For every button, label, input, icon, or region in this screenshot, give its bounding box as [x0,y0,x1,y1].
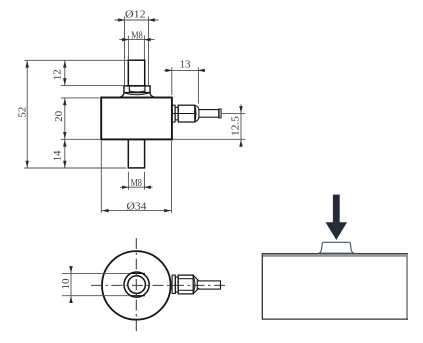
svg-text:Ø12: Ø12 [125,9,146,21]
hex nut facet lines [128,86,130,93]
hex nut / flange of upper stud [124,86,150,93]
base block left dark edge [261,253,263,319]
stud hole circle (top view) [128,276,146,294]
hex nut chamfer arc [129,91,145,92]
connector hex facet lines (top view) [178,278,193,280]
connector washer 2 (front view) [175,107,178,120]
connector washer 1 (top view) [172,275,175,293]
horizontal center line (top view) [91,284,228,286]
dim 12.5 bottom extension line (body bottom extended right) [172,138,245,140]
extension line body bottom [61,138,100,140]
connector cable tube (front view) [199,110,219,118]
dim 52 dimension line [26,60,28,168]
svg-text:52: 52 [18,107,29,118]
dim 13 dimension line with outside arrows [164,69,205,71]
washer top arc [125,93,149,95]
dim M8 bottom dimension line with outside arrows [120,186,153,188]
extension line lower stud bottom [24,167,126,169]
dim 13 extension line right [197,67,199,103]
connector hex right chamfers and facet arc (top view) [193,275,199,281]
svg-text:13: 13 [180,60,191,71]
connector washer 2 (top view) [175,277,178,292]
connector washer 1 (front view) [172,105,175,122]
upper threaded stud M8 [128,60,144,86]
svg-text:10: 10 [61,279,72,290]
svg-text:12.5: 12.5 [231,116,242,136]
svg-text:20: 20 [54,111,65,122]
dim M8 bottom extension lines [127,172,129,190]
lower threaded stud M8 [128,139,144,168]
load button boss on top of block [319,242,354,253]
svg-text:M8: M8 [130,178,142,189]
dim Ø34 dimension line with inside arrows [101,210,171,212]
dim 13 extension line left (body edge up) [171,67,173,95]
connector hex plug body (top view) [178,275,193,294]
dim 10 extension lines [62,272,130,274]
dim M8 extension lines (top stud) [127,36,129,60]
dim 10 dimension line with outside arrows [70,266,72,303]
connector tube end cap (front view) [219,109,221,118]
dim M8 top dimension line with outside arrows [119,39,154,41]
connector cable tube (top view) [197,281,220,289]
extension line body top [61,97,100,99]
extension line stud top [24,59,127,61]
vertical center line (top view) [135,238,137,334]
connector hex mid seam (front view) [172,113,195,115]
mounting base block [262,253,408,319]
base block top dark line [262,253,408,255]
dim 12 dimension line [64,60,66,85]
base block right gray edge [406,253,408,319]
force arrow head [326,222,348,240]
hex flange circle (top view) [124,272,149,297]
svg-text:M8: M8 [131,30,143,41]
dim Ø34 extension lines [100,141,102,213]
spherical washer flare below nut [119,93,124,98]
body outer circle (top view) [102,251,171,320]
extension line hex top [61,85,124,87]
dim 14 dimension line [64,139,66,168]
dim 20 dimension line [64,98,66,139]
svg-text:12: 12 [53,69,64,80]
connector hex plug body (front view) [178,105,195,122]
svg-text:Ø34: Ø34 [127,201,148,213]
connector axis line (front view) [221,112,245,114]
load cell body (front view) [101,98,172,140]
force arrow shaft [333,195,340,223]
connector hex right chamfers and facet arc (front view) [195,105,199,109]
hex flat chords (top view) [130,272,145,274]
dim 12.5 dimension line with outside arrows [240,104,242,147]
dim Ø12 dimension line with outside arrows [115,19,159,21]
dim Ø12 extension lines [124,17,126,86]
svg-text:14: 14 [53,150,64,162]
base block top gray band [262,253,408,257]
base block bottom dark edge [262,318,408,320]
